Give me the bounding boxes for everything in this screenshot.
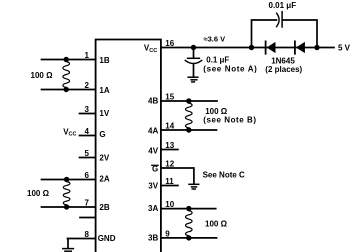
svg-text:10: 10 bbox=[165, 200, 174, 209]
svg-text:4V: 4V bbox=[148, 146, 158, 155]
node 3.6V junction bbox=[191, 45, 196, 50]
svg-text:5 V: 5 V bbox=[338, 43, 351, 52]
pin 10 wire bbox=[161, 208, 216, 210]
diode D1 body bbox=[267, 42, 276, 53]
svg-text:3B: 3B bbox=[148, 234, 158, 243]
svg-text:1: 1 bbox=[85, 51, 90, 60]
ground wire at pin 8 bbox=[67, 239, 69, 248]
diode D1 cathode bar bbox=[265, 41, 267, 53]
svg-text:9: 9 bbox=[165, 229, 170, 238]
node junction pin9 bbox=[186, 235, 191, 240]
svg-text:2: 2 bbox=[85, 81, 90, 90]
node junction left of diodes bbox=[249, 45, 254, 50]
capacitor C1 straight plate bbox=[281, 12, 283, 27]
pin 14 wire bbox=[161, 129, 217, 131]
pin 7 wire bbox=[42, 206, 95, 208]
svg-text:100 Ω: 100 Ω bbox=[27, 189, 50, 198]
svg-text:See Note C: See Note C bbox=[203, 171, 245, 180]
pin 16 Vcc supply wire bbox=[161, 47, 334, 49]
node junction pin7 bbox=[64, 204, 69, 209]
svg-text:12: 12 bbox=[165, 160, 174, 169]
svg-text:7: 7 bbox=[85, 199, 90, 208]
capacitor C2 curved plate bbox=[185, 60, 201, 63]
svg-text:11: 11 bbox=[165, 177, 174, 186]
svg-text:16: 16 bbox=[165, 39, 174, 48]
pin 8 wire bbox=[68, 238, 95, 240]
resistor R3 100 ohm bbox=[186, 101, 193, 130]
capacitor C1 branch wire right bbox=[283, 20, 317, 48]
svg-text:1A: 1A bbox=[99, 86, 109, 95]
resistor R4 100 ohm bbox=[186, 209, 193, 238]
svg-text:6: 6 bbox=[85, 171, 90, 180]
pin 1 wire bbox=[42, 59, 95, 61]
svg-text:4: 4 bbox=[85, 127, 90, 136]
svg-text:14: 14 bbox=[165, 122, 174, 131]
svg-text:G: G bbox=[152, 165, 158, 174]
svg-text:13: 13 bbox=[165, 141, 174, 150]
node junction pin14 bbox=[186, 127, 191, 132]
pin 13 stub bbox=[161, 149, 178, 151]
svg-text:(see Note A): (see Note A) bbox=[203, 65, 257, 74]
node junction pin15 bbox=[186, 98, 191, 103]
svg-text:1B: 1B bbox=[99, 56, 109, 65]
pin 4 stub bbox=[80, 135, 95, 137]
node junction pin10 bbox=[186, 206, 191, 211]
svg-text:4A: 4A bbox=[148, 127, 158, 136]
svg-text:GND: GND bbox=[98, 234, 116, 243]
pin 9 wire bbox=[161, 237, 217, 239]
svg-text:3A: 3A bbox=[148, 204, 158, 213]
pin 11 stub bbox=[161, 185, 178, 187]
svg-text:2V: 2V bbox=[99, 153, 109, 162]
svg-text:0.01 μF: 0.01 μF bbox=[269, 1, 297, 10]
node junction pin1 bbox=[63, 57, 68, 62]
ground symbol at pin 12 bbox=[189, 184, 199, 189]
IC U1 body bbox=[96, 40, 161, 252]
svg-text:G: G bbox=[99, 130, 105, 139]
ground symbol bottom-left bbox=[63, 249, 74, 252]
capacitor C2 flat plate bbox=[188, 57, 200, 59]
svg-text:100 Ω: 100 Ω bbox=[205, 220, 228, 229]
overbar of G pin 12 label bbox=[152, 164, 158, 166]
svg-text:≈3.6 V: ≈3.6 V bbox=[204, 35, 226, 44]
svg-text:2B: 2B bbox=[99, 203, 109, 212]
capacitor C2 0.1 uF lead bbox=[193, 48, 195, 58]
svg-text:2A: 2A bbox=[99, 175, 109, 184]
svg-text:(see Note B): (see Note B) bbox=[203, 116, 256, 125]
node junction right of diodes bbox=[314, 45, 319, 50]
unlabeled stub below pin 7 bbox=[80, 217, 95, 219]
pin 12 wire bbox=[161, 168, 194, 184]
capacitor C1 branch wire left bbox=[252, 20, 277, 48]
svg-text:5: 5 bbox=[85, 149, 90, 158]
pin 5 stub bbox=[80, 157, 95, 159]
capacitor C1 curved plate bbox=[277, 13, 280, 26]
svg-text:4B: 4B bbox=[148, 97, 158, 106]
pin 15 wire bbox=[161, 100, 217, 102]
svg-text:3V: 3V bbox=[148, 182, 158, 191]
diode D2 cathode bar bbox=[294, 41, 296, 53]
pin 2 wire bbox=[42, 89, 95, 91]
svg-text:15: 15 bbox=[165, 93, 174, 102]
svg-text:8: 8 bbox=[85, 230, 90, 239]
svg-text:(2 places): (2 places) bbox=[265, 65, 302, 74]
svg-text:100 Ω: 100 Ω bbox=[31, 71, 54, 80]
svg-text:1V: 1V bbox=[99, 109, 109, 118]
capacitor C2 lower lead bbox=[193, 64, 195, 77]
diode D2 body bbox=[296, 42, 305, 53]
ground symbol at C2 bbox=[188, 77, 198, 82]
resistor R1 100 ohm bbox=[63, 60, 70, 90]
node junction pin2 bbox=[63, 87, 68, 92]
pin 3 stub bbox=[80, 113, 95, 115]
resistor R2 100 ohm bbox=[63, 180, 70, 208]
svg-text:3: 3 bbox=[85, 105, 90, 114]
pin 6 wire bbox=[42, 179, 95, 181]
svg-text:0.1 μF: 0.1 μF bbox=[206, 55, 229, 64]
node junction pin6 bbox=[64, 177, 69, 182]
